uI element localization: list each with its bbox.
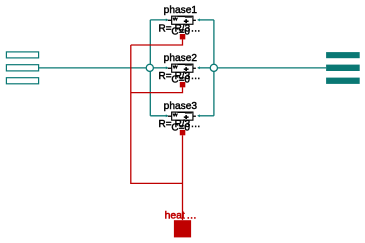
terminal: right plug bar 1 xyxy=(326,52,360,58)
arrow into phase3 right xyxy=(197,114,200,117)
arrow into phase2 left xyxy=(166,66,169,69)
svg-text:phase3: phase3 xyxy=(164,101,198,112)
arrow into phase1 left xyxy=(166,18,169,21)
component phase3 (RLC line block) xyxy=(172,112,193,121)
pin phase2 right xyxy=(193,67,196,69)
terminal: left plug bar 2 xyxy=(6,65,38,71)
wire: right vertical bus xyxy=(213,20,215,116)
heatport square phase2 xyxy=(180,82,186,87)
wire: phase1 input stub xyxy=(150,19,166,21)
phase3 group xyxy=(159,101,201,135)
svg-text:C=0: C=0 xyxy=(171,27,190,38)
pin phase3 right xyxy=(193,115,196,117)
node: right junction circle xyxy=(210,64,217,71)
component phase2 (RLC line block) xyxy=(172,64,193,73)
phase1 group xyxy=(159,5,201,39)
svg-text:C=0: C=0 xyxy=(171,75,190,86)
arrow into phase3 left xyxy=(166,114,169,117)
svg-text:C=0: C=0 xyxy=(171,123,190,134)
wire: phase3 heatport down to heat port xyxy=(182,135,184,220)
wire: phase1 heatport red xyxy=(131,39,183,45)
heatport square phase1 xyxy=(180,34,186,39)
arrow into phase2 right xyxy=(197,66,200,69)
terminal: left plug bar 3 xyxy=(6,78,38,84)
wire: phase2 output to right node xyxy=(200,67,211,69)
pin phase1 left xyxy=(168,19,171,21)
wire: left node to phase2 input xyxy=(153,67,166,69)
svg-text:phase1: phase1 xyxy=(164,5,198,16)
pin phase3 left xyxy=(168,115,171,117)
wire: red left bus down to heat port xyxy=(131,45,183,183)
wire: phase3 output stub xyxy=(200,115,214,117)
terminal: right plug bar 2 xyxy=(326,65,360,71)
terminal: left plug bar 1 xyxy=(6,52,38,58)
svg-text:heat…: heat… xyxy=(165,210,197,221)
heatport square phase3 xyxy=(180,130,186,135)
phase2 group xyxy=(159,53,201,87)
arrow into phase1 right xyxy=(197,18,200,21)
wire: left terminal to left node xyxy=(39,67,147,69)
terminal: right plug bar 3 xyxy=(326,78,360,84)
node: left junction circle xyxy=(146,64,153,71)
wire: left vertical bus xyxy=(149,20,151,116)
component phase1 (RLC line block) xyxy=(172,16,193,25)
wire: phase2 heatport red xyxy=(131,87,183,92)
pin phase1 right xyxy=(193,19,196,21)
heatPort connector square xyxy=(174,220,191,237)
wire: phase3 input stub xyxy=(150,115,166,117)
wire: right node to right terminal xyxy=(218,67,327,69)
svg-text:phase2: phase2 xyxy=(164,53,198,64)
pin phase2 left xyxy=(168,67,171,69)
wire: phase1 output stub xyxy=(200,19,214,21)
